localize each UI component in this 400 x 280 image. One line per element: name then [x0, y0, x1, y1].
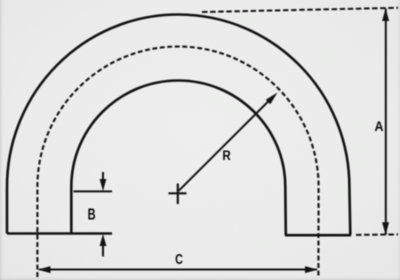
dimension C right arrowhead	[305, 266, 318, 273]
tube centerline (dashed arc and leg centerlines)	[37, 47, 318, 279]
center cross mark	[169, 184, 187, 205]
tube inner wall (inner arc + legs)	[71, 81, 285, 236]
top tangent dashed extension line	[202, 8, 398, 12]
dimension A line	[385, 9, 387, 235]
dimension A top arrowhead	[382, 8, 389, 21]
dimension C line	[39, 269, 317, 271]
left leg bottom cap with extension line	[7, 232, 112, 235]
radius R arrow line	[179, 100, 270, 191]
dimension A bottom arrowhead	[382, 222, 389, 235]
dimension B upper arrow	[102, 172, 104, 181]
bottom right dashed extension line	[356, 233, 398, 236]
dimension B upper tick line	[74, 190, 113, 192]
radius R arrowhead	[266, 93, 278, 105]
right leg bottom cap	[285, 234, 351, 237]
tube outer wall (outer arc + legs)	[7, 15, 350, 236]
dimension B lower arrow	[102, 246, 104, 257]
dimension C left arrowhead	[38, 266, 51, 273]
